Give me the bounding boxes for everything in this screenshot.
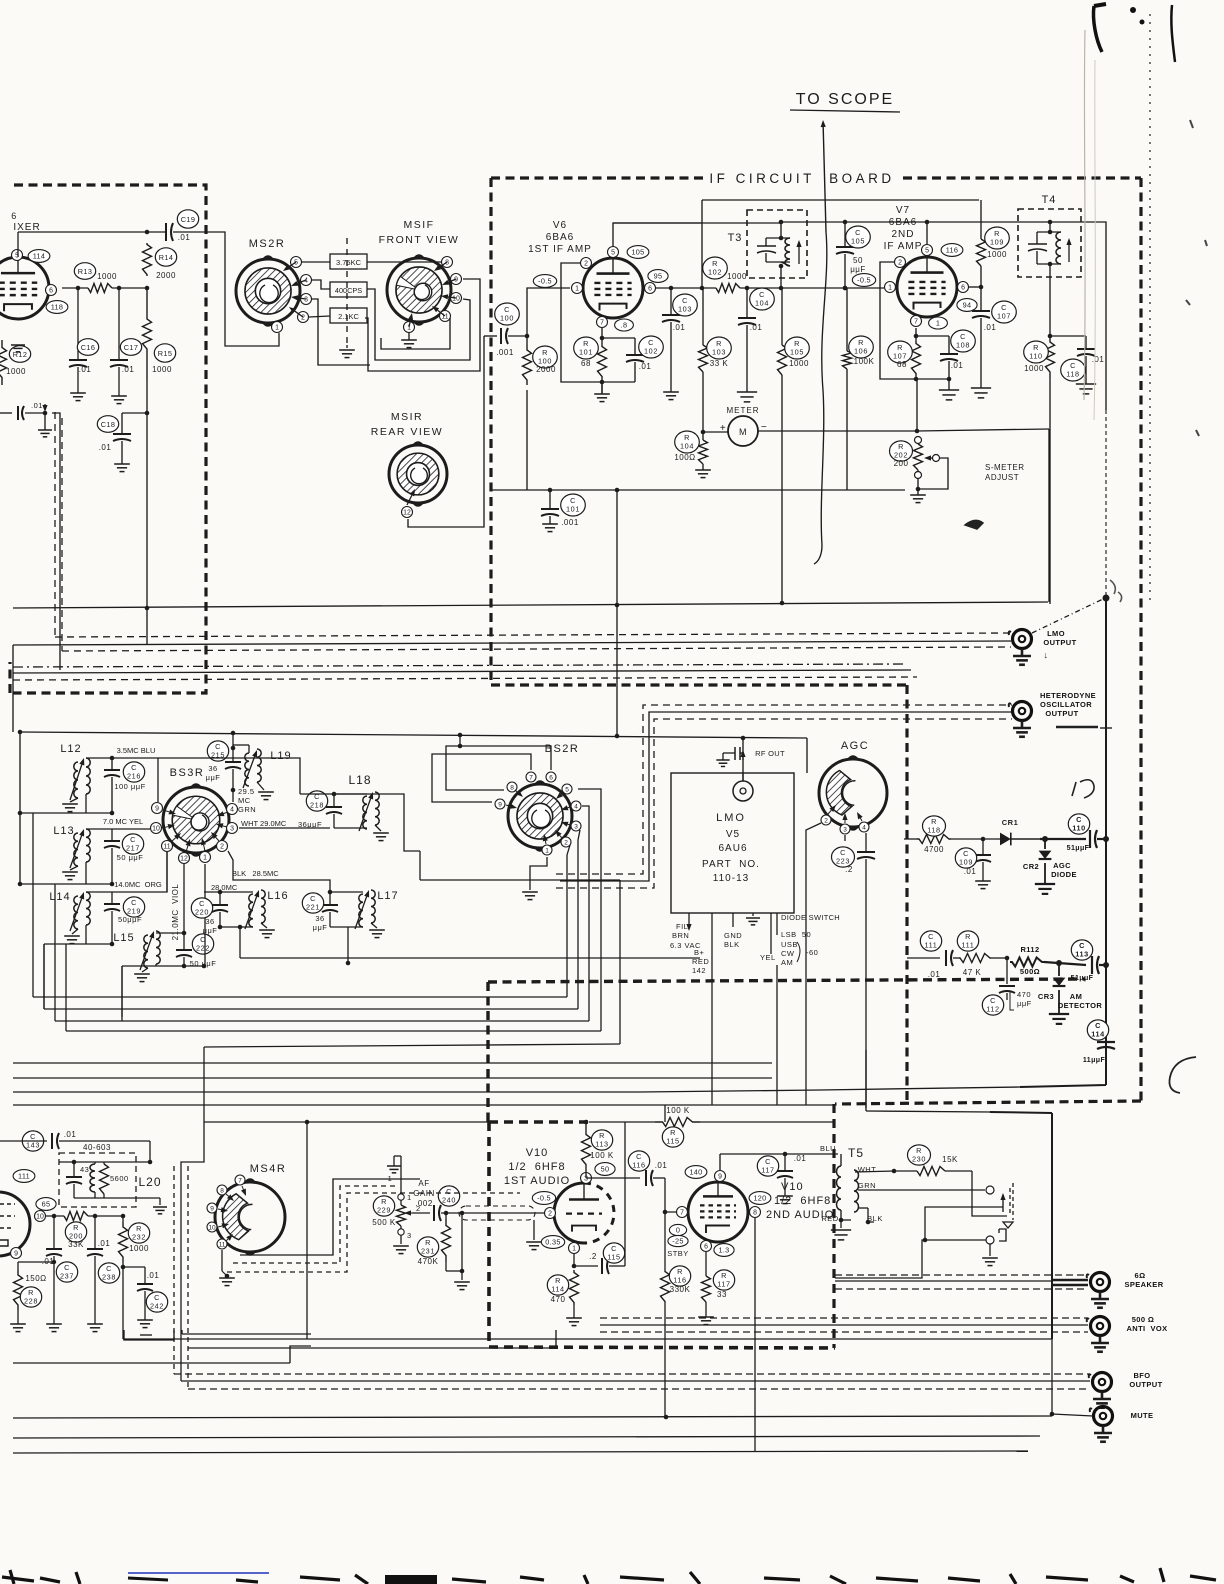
label R106 <box>849 336 874 358</box>
wire 2.1KC to MSIF pin9 <box>365 279 480 371</box>
svg-text:10: 10 <box>36 1213 44 1220</box>
wire bus solid y672 <box>13 670 911 673</box>
svg-text:METER: METER <box>727 406 760 415</box>
svg-text:111: 111 <box>18 1172 30 1181</box>
svg-text:109: 109 <box>959 857 973 866</box>
pin 6 of mixer <box>46 285 57 296</box>
ground below MSIF pin1 <box>408 333 410 340</box>
svg-text:AF: AF <box>418 1179 429 1188</box>
svg-text:229: 229 <box>377 1205 391 1214</box>
svg-text:AGC: AGC <box>841 740 869 752</box>
wire pin9 up <box>719 1154 721 1170</box>
wire BS2R right wires <box>578 789 601 792</box>
svg-text:36μμF: 36μμF <box>298 820 322 829</box>
svg-text:15K: 15K <box>942 1155 958 1164</box>
capacitor C18b <box>122 412 147 414</box>
wire left vert x20 <box>12 645 14 732</box>
svg-text:6: 6 <box>648 285 652 292</box>
svg-text:1: 1 <box>407 1193 412 1202</box>
svg-text:MC: MC <box>238 796 251 805</box>
svg-text:111: 111 <box>925 940 938 949</box>
T5 primary bottom gnd <box>840 1210 842 1220</box>
svg-text:.2: .2 <box>845 865 853 874</box>
svg-text:-0.5: -0.5 <box>538 277 552 286</box>
node -0.5 V10a <box>532 1192 555 1205</box>
svg-text:CW: CW <box>781 949 795 958</box>
svg-text:6: 6 <box>11 211 17 221</box>
svg-text:.001: .001 <box>496 348 514 357</box>
svg-text:CR2: CR2 <box>1023 862 1039 871</box>
resistor R15 <box>143 288 152 380</box>
svg-text:100K: 100K <box>854 357 875 366</box>
svg-text:-60: -60 <box>806 948 818 957</box>
svg-text:6Ω: 6Ω <box>1135 1271 1146 1280</box>
svg-text:7: 7 <box>600 319 604 326</box>
wire BS2R stairs <box>459 735 461 746</box>
svg-text:HETERODYNE: HETERODYNE <box>1040 691 1096 700</box>
switch BS2R <box>508 784 572 848</box>
switch BS3R <box>163 787 229 853</box>
phone jack dashes <box>1009 1188 1011 1216</box>
ground below C104 <box>737 391 757 393</box>
svg-text:232: 232 <box>132 1232 146 1241</box>
wire stair vert right <box>619 880 621 1044</box>
svg-text:RF OUT: RF OUT <box>755 749 785 758</box>
LMO box <box>671 773 794 913</box>
svg-text:AM: AM <box>1070 992 1082 1001</box>
resistor R113 <box>582 1134 591 1165</box>
pin 1 MSIF <box>404 322 415 333</box>
svg-text:CR1: CR1 <box>1002 818 1019 827</box>
artifact top right hook <box>1093 6 1102 52</box>
wire WHT to R230 <box>894 1170 917 1172</box>
wire pin11 down <box>166 852 168 892</box>
svg-text:7: 7 <box>914 318 918 325</box>
label C221 <box>302 893 323 913</box>
svg-text:R13: R13 <box>78 267 93 276</box>
svg-text:.01: .01 <box>31 401 43 410</box>
capacitor 43 <box>73 1162 75 1177</box>
wire plate bus y223 <box>613 222 781 224</box>
wire WHT tap <box>855 1171 894 1172</box>
svg-text:1: 1 <box>575 285 579 292</box>
svg-text:1: 1 <box>275 324 279 331</box>
pot R202 <box>914 444 923 470</box>
capacitor C116 <box>585 1172 587 1178</box>
capacitor C218 <box>333 794 335 807</box>
node 95 <box>648 270 668 283</box>
wire dash-dot diagonal to bus <box>1032 599 1103 633</box>
svg-text:T4: T4 <box>1042 194 1057 206</box>
ground below C242 <box>137 1319 153 1321</box>
svg-text:.01: .01 <box>673 323 686 332</box>
jack 500 anti vox <box>1091 1317 1110 1336</box>
svg-text:242: 242 <box>150 1301 164 1310</box>
wire detector row feed <box>903 838 905 840</box>
svg-text:5: 5 <box>565 786 569 793</box>
pin 11 MS4R <box>217 1239 227 1249</box>
jack HETERODYNE OSC OUTPUT <box>1013 702 1032 721</box>
pin 11 MSIF <box>440 311 451 322</box>
resistor R117 <box>705 1252 707 1276</box>
resistor R112 <box>1005 956 1010 961</box>
svg-text:470: 470 <box>551 1295 566 1304</box>
ground below C109 <box>975 880 991 882</box>
node label 114 <box>28 250 50 263</box>
jack contact grn <box>986 1186 994 1194</box>
svg-text:μμF: μμF <box>206 773 221 782</box>
svg-text:36: 36 <box>208 764 217 773</box>
transformer T4 cap <box>1028 243 1047 245</box>
ground below C118 <box>1076 383 1096 385</box>
svg-text:216: 216 <box>127 771 141 780</box>
svg-text:R14: R14 <box>159 253 174 262</box>
node 105 <box>627 246 649 259</box>
pin 6 BS2R <box>546 772 556 782</box>
wire pin1 down <box>204 864 206 966</box>
label R231 <box>417 1237 438 1257</box>
grounds top area <box>11 344 25 346</box>
capacitor C118 <box>1050 335 1086 337</box>
resistor R103 <box>699 345 708 372</box>
ground L12 <box>70 798 78 802</box>
switch AGC <box>819 759 887 827</box>
ground below C117 <box>777 1195 793 1197</box>
svg-text:2: 2 <box>564 839 568 846</box>
label C114 <box>1087 1020 1108 1040</box>
capacitor C220 body <box>219 892 221 905</box>
wire MS4R bundle dashed <box>233 1186 395 1263</box>
pin 10 BS3R <box>151 823 162 834</box>
svg-text:110: 110 <box>1029 351 1042 360</box>
svg-text:1000: 1000 <box>129 1244 149 1253</box>
svg-text:PART NO.: PART NO. <box>702 859 760 870</box>
svg-text:120: 120 <box>753 1194 766 1203</box>
ground below CR3 <box>1049 1013 1069 1015</box>
wire lower stubs <box>181 1330 183 1334</box>
svg-text:115: 115 <box>666 1136 679 1145</box>
resistor R114 <box>573 1254 575 1266</box>
node 1 V7 <box>929 317 948 329</box>
svg-text:500Ω: 500Ω <box>1020 967 1040 976</box>
label R104 <box>675 431 700 453</box>
svg-text:1000: 1000 <box>6 367 26 376</box>
svg-text:51μμF: 51μμF <box>1067 845 1090 852</box>
svg-text:102: 102 <box>708 267 722 276</box>
ground L18 <box>375 825 381 831</box>
svg-text:.01: .01 <box>964 867 977 876</box>
wire meter box bottom <box>13 602 1048 608</box>
wire MSIR pin12 down <box>408 336 484 527</box>
svg-text:CR3: CR3 <box>1038 992 1054 1001</box>
svg-text:104: 104 <box>680 441 694 450</box>
capacitor C222 <box>182 931 187 936</box>
label R230 <box>908 1145 931 1165</box>
capacitor C108 <box>916 335 949 337</box>
wire bus down right detector <box>1105 598 1107 1085</box>
capacitor C221 <box>329 892 331 905</box>
pin 12 MSIR <box>402 507 413 518</box>
svg-text:0.35: 0.35 <box>545 1238 560 1247</box>
svg-text:142: 142 <box>692 966 706 975</box>
label C16 <box>77 339 98 356</box>
capacitor C111 <box>907 957 940 959</box>
svg-text:5: 5 <box>925 247 929 254</box>
board outline: LMO board left dashed <box>486 982 489 1122</box>
svg-text:BRN: BRN <box>672 931 689 940</box>
svg-text:.01: .01 <box>79 365 92 374</box>
svg-text:MSIF: MSIF <box>403 219 434 231</box>
label C223 <box>832 847 855 867</box>
capacitor C102 <box>602 337 635 339</box>
pin 9 V9 <box>11 1248 22 1259</box>
label R202 <box>890 441 913 461</box>
wire stair bus 4 <box>66 1030 601 1032</box>
svg-text:4: 4 <box>862 824 866 831</box>
svg-text:TO SCOPE: TO SCOPE <box>796 91 894 108</box>
label C215 <box>207 741 228 761</box>
label R117 <box>713 1270 734 1290</box>
wire C100 to V6 pin1 <box>527 288 570 336</box>
pin 1 MS2R <box>272 322 283 333</box>
label C118 <box>1061 359 1086 381</box>
wire vert x665 top <box>664 1105 666 1122</box>
label C217 <box>122 834 143 854</box>
wire pin8 drop <box>754 1218 756 1452</box>
resistor R116 <box>664 1212 666 1271</box>
label C219 <box>123 897 144 917</box>
resistor R101 <box>600 336 605 341</box>
svg-text:-0.5: -0.5 <box>537 1194 551 1203</box>
wire R202 wiper loop <box>918 458 948 489</box>
wire long y1438 <box>13 1436 1040 1438</box>
label C108 <box>951 330 976 352</box>
pin 3 V10a <box>581 1173 592 1184</box>
wire R232 bottom long <box>123 1338 1052 1340</box>
capacitor C107 <box>980 287 982 311</box>
svg-text:1ST IF AMP: 1ST IF AMP <box>528 244 592 255</box>
wire jack out down <box>835 1240 925 1278</box>
pin 1 V6 <box>572 283 583 294</box>
svg-text:100 K: 100 K <box>590 1151 614 1160</box>
svg-text:100: 100 <box>500 313 514 322</box>
pin 6 V7 <box>958 282 969 293</box>
label C113 <box>1071 940 1092 960</box>
svg-text:6: 6 <box>961 284 965 291</box>
svg-text:2000: 2000 <box>536 365 556 374</box>
resistor R102 <box>716 284 740 293</box>
diode CR1 <box>1000 833 1011 846</box>
capacitor C101 <box>548 488 553 493</box>
svg-text:RED: RED <box>821 1214 838 1223</box>
capacitor C17 <box>117 286 122 291</box>
svg-text:.01: .01 <box>951 361 964 370</box>
pin 9 MS4R <box>207 1203 217 1213</box>
transformer T4 arrow <box>1068 245 1070 262</box>
svg-text:MS2R: MS2R <box>249 238 286 250</box>
ground V6 cathode <box>600 380 605 385</box>
svg-text:104: 104 <box>755 298 769 307</box>
wire top bus w/ R115 <box>589 1121 655 1123</box>
pin 2 AGC <box>821 815 831 825</box>
node 116 <box>941 244 963 257</box>
svg-text:115: 115 <box>607 1252 620 1261</box>
svg-text:0: 0 <box>676 1226 680 1235</box>
svg-text:9: 9 <box>718 1173 722 1180</box>
pin 3 AGC <box>840 824 850 834</box>
svg-text:6BA6: 6BA6 <box>546 232 574 243</box>
resistor R12 (partial left edge) <box>9 346 30 363</box>
svg-text:.2: .2 <box>589 1252 597 1261</box>
wire meter top feed <box>916 379 918 431</box>
svg-text:36: 36 <box>205 917 214 926</box>
pin 2 BS3R <box>217 841 228 852</box>
svg-text:118: 118 <box>1066 369 1079 378</box>
resistor R107 <box>914 334 919 339</box>
tube V9 partial <box>0 1192 30 1256</box>
svg-text:117: 117 <box>717 1279 730 1288</box>
pin 2 V7 <box>895 257 906 268</box>
coil L20 in box <box>90 1164 95 1192</box>
svg-text:-0.5: -0.5 <box>857 276 871 285</box>
pin 10 MS4R <box>207 1222 217 1232</box>
svg-text:L20: L20 <box>138 1175 161 1189</box>
svg-text:102: 102 <box>644 346 658 355</box>
label C103 <box>673 294 698 316</box>
svg-text:12: 12 <box>180 855 188 862</box>
wire MS2R pin2 to 2.1KC <box>309 316 330 317</box>
wire C215-L19 <box>233 744 249 746</box>
svg-text:L19: L19 <box>270 750 291 762</box>
wire vert x204 <box>203 1047 205 1122</box>
pin 1 BS2R <box>542 845 552 855</box>
wire MSIF pin11 loop <box>381 318 450 349</box>
svg-text:100 μμF: 100 μμF <box>114 782 145 791</box>
pin 7 V6 <box>597 317 608 328</box>
wire meter right edge up <box>1048 429 1050 602</box>
svg-text:1000: 1000 <box>727 272 747 281</box>
svg-text:DIODE: DIODE <box>1051 870 1077 879</box>
capacitor C223 <box>857 851 875 853</box>
svg-text:.001: .001 <box>561 518 579 527</box>
svg-text:3: 3 <box>574 823 578 830</box>
svg-text:.01: .01 <box>98 1239 111 1248</box>
svg-text:9: 9 <box>14 1250 18 1257</box>
capacitor C217 <box>86 828 112 830</box>
svg-text:50 μμF: 50 μμF <box>117 853 144 862</box>
node 120 <box>749 1192 771 1205</box>
board outline: mixer circuit board (top-left, dashed) <box>10 185 206 693</box>
pin 8 V10b <box>750 1207 761 1218</box>
svg-text:105: 105 <box>851 236 865 245</box>
filter box 2.1KC <box>330 308 367 323</box>
svg-text:1000: 1000 <box>97 272 117 281</box>
resistor R228 <box>52 1260 56 1264</box>
wire L14 bottom <box>85 925 87 944</box>
svg-text:1: 1 <box>572 1245 576 1252</box>
ground below CR2 <box>1035 883 1055 885</box>
wire stair bus 1 <box>33 996 567 998</box>
svg-text:217: 217 <box>126 843 140 852</box>
svg-text:110-13: 110-13 <box>713 873 749 884</box>
svg-text:ADJUST: ADJUST <box>985 473 1019 482</box>
wire long bus C y1092 <box>13 1091 640 1093</box>
wire bus dashdot y667 <box>13 664 905 667</box>
ground below R117 <box>698 1316 714 1318</box>
svg-text:9: 9 <box>498 801 502 808</box>
node 65 <box>36 1198 56 1211</box>
ground BS2R <box>530 857 547 890</box>
svg-text:95: 95 <box>654 272 663 281</box>
svg-text:116: 116 <box>946 246 959 255</box>
svg-text:110: 110 <box>1072 823 1086 832</box>
ground below C237 <box>46 1323 62 1325</box>
svg-text:150Ω: 150Ω <box>25 1274 46 1283</box>
svg-text:21.0MC VIOL: 21.0MC VIOL <box>171 884 180 941</box>
smear mark under het label <box>1056 726 1098 729</box>
node 1.3 <box>714 1244 734 1257</box>
svg-text:.01: .01 <box>1092 355 1105 364</box>
capacitor C113 inline <box>1044 962 1086 965</box>
svg-text:118: 118 <box>927 825 940 834</box>
jack MUTE <box>1094 1407 1113 1426</box>
svg-text:2: 2 <box>824 817 828 824</box>
wire NC contact loop <box>925 1207 1003 1240</box>
svg-text:6: 6 <box>49 287 53 294</box>
svg-text:.01: .01 <box>655 1161 668 1170</box>
label C105 <box>846 226 871 248</box>
svg-text:MUTE: MUTE <box>1131 1411 1154 1420</box>
svg-text:YEL: YEL <box>760 953 776 962</box>
svg-text:4700: 4700 <box>924 845 944 854</box>
wire bus dashed y679 <box>13 677 917 680</box>
ground L17 <box>371 923 377 928</box>
wire bus T3 to C105 to V7 <box>781 221 927 223</box>
node label 118 <box>46 301 68 314</box>
ground stub left <box>43 411 48 416</box>
label C240 <box>438 1186 459 1206</box>
svg-text:2: 2 <box>416 1204 421 1213</box>
svg-text:2: 2 <box>548 1210 552 1217</box>
wire R102 to V7 pin1 <box>740 287 884 289</box>
capacitor C103 <box>670 288 672 315</box>
svg-text:6AU6: 6AU6 <box>718 843 747 854</box>
resistor R200 <box>64 1212 88 1221</box>
svg-text:1000: 1000 <box>987 250 1007 259</box>
svg-text:29.5: 29.5 <box>238 787 255 796</box>
wire bus A2 y1046 <box>204 1044 620 1047</box>
wire C218-L18 top <box>300 793 367 795</box>
svg-text:WHT 29.0MC: WHT 29.0MC <box>241 819 287 828</box>
svg-text:IF AMP: IF AMP <box>884 241 923 252</box>
filter box 3.75KC <box>330 254 367 269</box>
svg-text:1000: 1000 <box>789 359 809 368</box>
svg-text:140: 140 <box>689 1168 702 1177</box>
svg-text:100Ω: 100Ω <box>674 453 695 462</box>
label C222 <box>192 934 213 954</box>
ground below R104 <box>695 469 711 471</box>
pin 7 V7 <box>911 316 922 327</box>
board outline: IF CIRCUIT BOARD top edge w/ label <box>491 176 703 179</box>
svg-text:500 Ω: 500 Ω <box>1132 1315 1155 1324</box>
capacitor C114 inline <box>1097 1041 1115 1043</box>
svg-text:1: 1 <box>936 319 940 328</box>
svg-text:107: 107 <box>997 311 1011 320</box>
pin 8 BS2R <box>507 782 517 792</box>
pot R229 <box>400 1200 402 1205</box>
svg-text:STBY: STBY <box>667 1249 689 1258</box>
svg-text:400CPS: 400CPS <box>335 286 362 295</box>
